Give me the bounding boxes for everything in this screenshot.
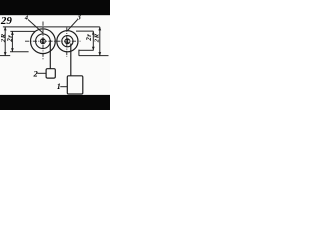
svg-text:1: 1 xyxy=(57,82,61,91)
svg-text:2r: 2r xyxy=(7,35,14,43)
svg-text:2: 2 xyxy=(33,69,39,79)
svg-text:2R: 2R xyxy=(94,33,101,43)
svg-text:29: 29 xyxy=(0,15,12,27)
svg-text:3: 3 xyxy=(76,14,81,22)
svg-text:4: 4 xyxy=(24,15,29,22)
svg-text:2r: 2r xyxy=(86,34,93,42)
